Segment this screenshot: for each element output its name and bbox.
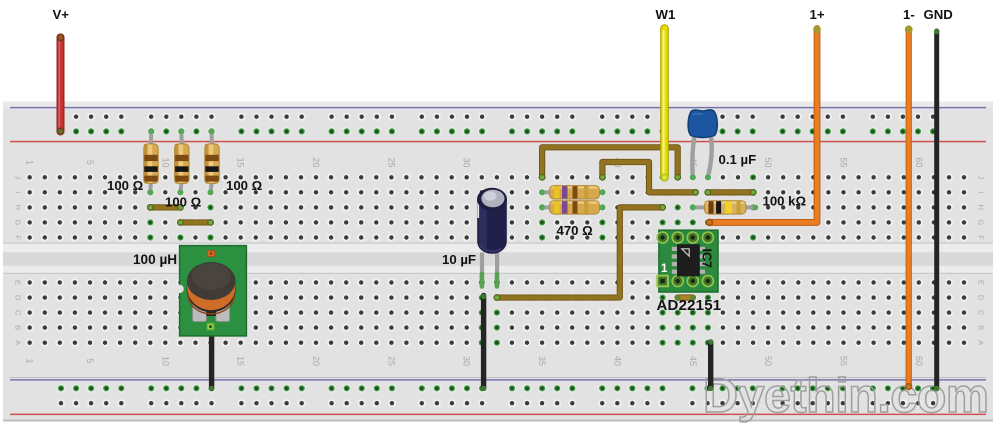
breadboard body	[3, 102, 993, 422]
svg-text:35: 35	[537, 356, 547, 366]
wire W10 (col44-D to col45-D)	[678, 294, 693, 300]
svg-text:J: J	[977, 175, 986, 179]
column numbers	[25, 157, 924, 366]
svg-text:1: 1	[661, 263, 668, 275]
wire W9 (col46-I to col49-I)	[708, 189, 753, 195]
svg-text:Dyethin.com: Dyethin.com	[703, 369, 989, 423]
svg-text:10: 10	[160, 356, 170, 366]
svg-text:G: G	[977, 219, 986, 225]
svg-text:E: E	[14, 280, 23, 285]
svg-text:60: 60	[914, 157, 924, 167]
breadboard holes (dark)	[26, 113, 969, 408]
svg-text:30: 30	[462, 356, 472, 366]
svg-text:25: 25	[386, 157, 396, 167]
svg-text:G: G	[14, 219, 23, 225]
svg-text:55: 55	[839, 356, 849, 366]
svg-text:100 Ω: 100 Ω	[107, 178, 144, 193]
svg-text:J: J	[14, 175, 23, 179]
svg-text:1+: 1+	[810, 7, 825, 22]
svg-text:40: 40	[612, 356, 622, 366]
svg-text:E: E	[977, 280, 986, 285]
svg-text:A: A	[14, 340, 23, 345]
wire 1- (orange)	[906, 29, 912, 387]
svg-text:B: B	[14, 325, 23, 330]
svg-text:W1: W1	[656, 7, 676, 22]
wire (col46-A to bottom rail, black)	[708, 342, 713, 388]
svg-text:A: A	[977, 340, 986, 345]
wire W5 (col11-G to col13-G)	[180, 219, 210, 225]
resistor R6 100kΩ	[690, 201, 758, 214]
svg-text:5: 5	[85, 358, 95, 363]
top rail red line	[10, 141, 986, 143]
svg-text:30: 30	[462, 157, 472, 167]
svg-text:470 Ω: 470 Ω	[557, 223, 594, 238]
svg-text:B: B	[977, 325, 986, 330]
svg-text:IC7: IC7	[700, 249, 714, 269]
svg-text:45: 45	[688, 356, 698, 366]
capacitor C2 10uF electrolytic	[477, 188, 507, 287]
wire W4 (col9-H to col11-H)	[150, 204, 180, 210]
svg-text:20: 20	[311, 356, 321, 366]
svg-text:F: F	[977, 235, 986, 240]
svg-text:I: I	[977, 191, 986, 193]
svg-text:10 µF: 10 µF	[442, 252, 476, 267]
svg-text:60: 60	[914, 356, 924, 366]
center channel	[3, 243, 993, 275]
svg-text:1: 1	[25, 160, 35, 165]
svg-text:5: 5	[85, 160, 95, 165]
wire (col31-D to bottom rail, black)	[481, 296, 486, 389]
svg-text:15: 15	[236, 356, 246, 366]
svg-text:25: 25	[386, 356, 396, 366]
svg-text:AD22151: AD22151	[657, 297, 722, 314]
svg-text:100 kΩ: 100 kΩ	[763, 194, 807, 209]
wire W6 (col35-J to col44-J)	[542, 147, 678, 177]
capacitor C1 0.1uF ceramic	[688, 110, 717, 180]
wire W8 (col32-D to col43-H)	[497, 207, 663, 297]
svg-text:H: H	[14, 205, 23, 210]
wire W1 (yellow)	[659, 29, 669, 178]
svg-text:F: F	[14, 235, 23, 240]
resistor R3 100Ω	[205, 129, 219, 196]
svg-text:0.1 µF: 0.1 µF	[719, 152, 757, 167]
resistor R1 100Ω	[144, 129, 158, 196]
resistor R2 100Ω	[175, 129, 189, 196]
svg-text:1: 1	[25, 358, 35, 363]
svg-text:20: 20	[311, 157, 321, 167]
IC U1 AD22151 module	[656, 230, 718, 292]
svg-text:55: 55	[839, 157, 849, 167]
wire W7 (col39-J to col45-I)	[602, 162, 695, 192]
inductor L1 100uH module	[175, 246, 246, 336]
bottom rail red line	[10, 414, 986, 416]
svg-text:D: D	[977, 295, 986, 301]
svg-text:50: 50	[763, 157, 773, 167]
row letters	[14, 175, 986, 345]
svg-text:I: I	[14, 191, 23, 193]
svg-text:D: D	[14, 295, 23, 301]
svg-text:50: 50	[763, 356, 773, 366]
wire GND (black)	[934, 31, 939, 389]
resistor R5 470Ω	[539, 201, 605, 214]
svg-text:100 Ω: 100 Ω	[165, 195, 202, 210]
bottom rail blue line	[10, 379, 986, 380]
svg-text:1-: 1-	[903, 7, 915, 22]
svg-text:GND: GND	[924, 7, 953, 22]
resistor R4 470Ω	[539, 186, 605, 199]
svg-text:H: H	[977, 205, 986, 210]
breadboard holes (green connected)	[57, 127, 937, 392]
wire 1+ (orange)	[710, 29, 818, 223]
svg-text:10: 10	[160, 157, 170, 167]
wire V+ (red)	[59, 38, 60, 132]
svg-text:C: C	[14, 310, 23, 316]
svg-text:V+: V+	[53, 7, 70, 22]
top rail blue line	[10, 107, 986, 108]
svg-text:100 Ω: 100 Ω	[226, 178, 263, 193]
svg-text:15: 15	[236, 157, 246, 167]
wire (inductor to bottom rail, black)	[209, 329, 214, 388]
svg-text:C: C	[977, 310, 986, 316]
svg-text:100 µH: 100 µH	[133, 252, 177, 267]
